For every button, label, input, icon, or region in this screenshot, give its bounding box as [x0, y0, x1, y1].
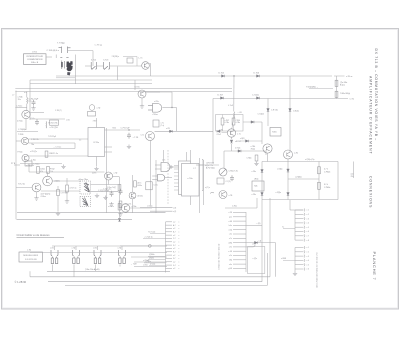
- svg-text:x.(7)ΩΩx: x.(7)ΩΩx: [295, 176, 302, 178]
- svg-text:© 1.2B 90: © 1.2B 90: [15, 280, 27, 284]
- pin mark conn3 5: [303, 226, 306, 229]
- wire fuse1 up: [54, 246, 56, 250]
- wire conn2 pin 13: [233, 263, 246, 265]
- resistor R705: [37, 167, 40, 174]
- ground between boxes: [95, 194, 99, 198]
- svg-text:C8 x2: C8 x2: [217, 134, 221, 136]
- wire T701 collector jog: [149, 63, 150, 65]
- switch S703 contacts: [104, 62, 110, 70]
- wire y148 link: [35, 148, 75, 150]
- diode D709: [267, 109, 270, 112]
- svg-text:x x: x x: [24, 92, 26, 94]
- wire conn1 in y238: [143, 238, 166, 240]
- wire x117 drop: [117, 67, 119, 81]
- wire y66 seg a: [85, 65, 91, 67]
- fuse switch F2: [73, 250, 80, 264]
- svg-text:D.7Ωx: D.7Ωx: [17, 121, 23, 123]
- inductor L703: [233, 112, 236, 119]
- fuse switch F1: [51, 250, 58, 264]
- transistor T710: [129, 192, 136, 199]
- svg-text:x (7)x: x (7)x: [253, 258, 258, 260]
- wire T705 out: [29, 138, 88, 140]
- svg-text:x⁷Ω±: x⁷Ω±: [252, 243, 256, 245]
- wire y77.8 seg: [56, 77, 75, 79]
- svg-text:x.(7) x: x.(7) x: [205, 187, 210, 189]
- svg-text:x 5: x 5: [307, 227, 309, 229]
- svg-text:x 6: x 6: [307, 231, 309, 233]
- wire G702 out: [172, 166, 178, 168]
- wire T715 to column: [113, 176, 120, 178]
- svg-text:x.7Ωx: x.7Ωx: [252, 171, 257, 173]
- svg-text:(7)Ωxx: (7)Ωxx: [149, 258, 154, 260]
- wire bus y88.5: [15, 88, 232, 90]
- svg-text:xΩxxx 7Ωxx: xΩxxx 7Ωxx: [79, 179, 89, 181]
- svg-text:C.Rx: C.Rx: [154, 185, 158, 187]
- svg-text:x.7Ω: x.7Ω: [72, 248, 76, 250]
- svg-text:Circuit fusible vu de dessous: Circuit fusible vu de dessous: [17, 233, 51, 237]
- svg-text:x.7: x.7: [12, 95, 14, 97]
- wire x163.5 vertical: [163, 150, 165, 162]
- ground C702: [31, 106, 35, 110]
- wire gate out: [165, 177, 172, 179]
- transistor T711: [121, 204, 129, 212]
- capacitor C703: [35, 119, 39, 125]
- svg-text:7.8.7 xΩx: 7.8.7 xΩx: [148, 232, 155, 234]
- svg-text:COMMUTATION: COMMUTATION: [27, 58, 43, 61]
- wire y257 seg: [131, 256, 167, 258]
- wire enclosure out y122: [243, 121, 262, 123]
- svg-text:+ 7.7Ω: + 7.7Ω: [133, 137, 139, 139]
- wire x266 drop: [265, 151, 267, 155]
- wire main bus y76: [56, 75, 332, 77]
- transistor T707: [32, 183, 41, 192]
- svg-text:D.706: D.706: [254, 73, 260, 75]
- wire conn3 lower pin 6: [295, 268, 304, 270]
- svg-text:0.7Ωx: 0.7Ωx: [236, 122, 241, 124]
- wire drop x93: [92, 51, 94, 66]
- component box right mid: [252, 181, 264, 191]
- wire G702 in2: [155, 168, 161, 170]
- wire conn1 pin 14: [166, 264, 173, 266]
- transistor T712 small circle: [219, 191, 227, 199]
- wire T707 emitter: [36, 192, 38, 196]
- wire T703 diode down: [231, 144, 233, 151]
- wire conn1 pin 12: [166, 257, 173, 259]
- svg-text:7.W.(ΩΩ8)x →: 7.W.(ΩΩ8)x →: [306, 86, 318, 88]
- svg-text:4.7k 7.5x: 4.7k 7.5x: [70, 188, 77, 190]
- svg-text:x.7(Ω) x(7)x: x.7(Ω) x(7)x: [305, 159, 315, 161]
- wire T702 to x172: [146, 91, 172, 93]
- component box center: [153, 120, 159, 127]
- svg-text:x.7(Ω)x: x.7(Ω)x: [276, 192, 282, 194]
- wire IC2 left pin 7: [174, 186, 179, 188]
- component box L70: [25, 161, 32, 166]
- logic gate G701: [158, 175, 165, 181]
- svg-text:D.7Ωx: D.7Ωx: [235, 148, 240, 150]
- svg-text:x 7: x 7: [307, 236, 309, 238]
- svg-text:c.6x: c.6x: [229, 234, 232, 236]
- wire y266 seg: [134, 266, 167, 268]
- resistor R716: [66, 185, 69, 192]
- wire x290 long drop: [289, 76, 291, 152]
- wire x353 stub: [352, 162, 354, 179]
- wire x275 drop: [275, 243, 277, 277]
- svg-text:C.7Ωx 0.x: C.7Ωx 0.x: [103, 189, 111, 191]
- wire fuse drop f1: [52, 265, 54, 272]
- wire bus y213: [17, 212, 166, 214]
- svg-text:E-7: E-7: [173, 251, 176, 253]
- wire conn3 pin 4: [295, 222, 304, 224]
- wire y131.3: [155, 130, 214, 132]
- ground center: [118, 212, 122, 216]
- wire x150.5 down to bus: [150, 64, 152, 77]
- svg-text:J.7x: J.7x: [162, 160, 165, 162]
- svg-text:7.8Ωx 8Ω(x): 7.8Ωx 8Ω(x): [340, 93, 351, 95]
- wire fuses bottom y271: [47, 270, 170, 272]
- wire conn3 pin 2: [295, 213, 304, 215]
- svg-text:x-2: x-2: [173, 228, 175, 230]
- svg-text:x.(2): x.(2): [173, 211, 177, 213]
- wire T710 down: [132, 199, 134, 213]
- svg-text:x.7ΩΩΩ xΩx 7Ω xΩΩx 7.ΩΩx: x.7ΩΩΩ xΩx 7Ω xΩΩx 7.ΩΩx xΩ: [219, 243, 221, 270]
- svg-text:x.7Ω: x.7Ω: [118, 248, 122, 250]
- transistor T714: [284, 150, 293, 159]
- component box under trimmer: [217, 178, 224, 184]
- transistor T708: [43, 176, 53, 186]
- svg-text:R.7Ω 170k: R.7Ω 170k: [49, 123, 58, 125]
- svg-text:x.7(Ω)x: x.7(Ω)x: [277, 168, 283, 170]
- diode DL1: [261, 170, 264, 173]
- ground T702: [140, 104, 144, 108]
- wire IC right pin y147: [105, 146, 113, 148]
- svg-text:x.7Ω: x.7Ω: [114, 173, 118, 175]
- svg-text:C.7(2k): C.7(2k): [252, 95, 259, 97]
- svg-text:7.7 Mpp: 7.7 Mpp: [57, 43, 66, 45]
- wire conn1 pin 4: [166, 231, 173, 233]
- wire conn1 pin 10: [166, 251, 173, 253]
- svg-text:x-2: x-2: [173, 268, 175, 270]
- wire IC2 left pin 1: [174, 165, 179, 167]
- svg-text:C.R 56x: C.R 56x: [271, 110, 278, 112]
- wire conn2 pin 5: [233, 229, 246, 231]
- svg-text:C.7M pp: C.7M pp: [95, 45, 103, 47]
- hook right of IC2: [210, 192, 214, 193]
- svg-text:+ C.7(2) 7μ: + C.7(2) 7μ: [144, 236, 153, 238]
- svg-text:IC70x: IC70x: [93, 142, 100, 144]
- wire conn2 pin 10: [233, 250, 246, 252]
- svg-text:x 5: x 5: [307, 264, 309, 266]
- wire long bottom 2: [48, 281, 262, 283]
- svg-text:x-2: x-2: [173, 235, 175, 237]
- svg-text:x.7Ω: x.7Ω: [166, 128, 170, 130]
- switch S701 contacts: [59, 47, 71, 58]
- wire conn3 pin 1: [295, 209, 304, 211]
- wire ladder top y161.5: [262, 161, 338, 163]
- wire conn1 pin 2: [166, 224, 173, 226]
- svg-text:→ 0V: → 0V: [237, 112, 242, 114]
- svg-text:x.7Ω (7)x: x.7Ω (7)x: [30, 151, 37, 153]
- svg-text:x 3: x 3: [307, 218, 309, 220]
- wire T704 down: [25, 119, 27, 130]
- svg-text:x.7Ω(2) 2x: x.7Ω(2) 2x: [26, 165, 34, 167]
- wire fuse drop f2: [73, 265, 75, 277]
- wire x268 drop: [267, 99, 269, 127]
- wire IC2 top pin a: [186, 152, 188, 161]
- wire conn3 left stub: [283, 228, 295, 230]
- wire T705 out2: [29, 142, 75, 144]
- svg-text:L.7Ωxx: L.7Ωxx: [34, 164, 40, 166]
- diode D706 on bus: [257, 75, 260, 78]
- pin mark conn3 3: [303, 217, 306, 220]
- svg-text:MODULE-XΩXX: MODULE-XΩXX: [23, 255, 38, 257]
- wire T702 down: [141, 98, 143, 104]
- heading circuit underline: [17, 233, 65, 238]
- wire fuse4 up: [121, 246, 123, 250]
- wire y262 seg: [134, 261, 167, 263]
- wire bus y83.5: [30, 83, 152, 85]
- svg-text:Γ.x: Γ.x: [282, 226, 284, 228]
- svg-text:P.7Ωx: P.7Ωx: [18, 152, 23, 154]
- svg-text:5.7x2: 5.7x2: [91, 60, 97, 62]
- svg-text:x.7Ω: x.7Ω: [97, 108, 101, 110]
- wire x27 top: [26, 92, 28, 98]
- svg-text:AMPLIFICATEUR D’EFFACEMENT: AMPLIFICATEUR D’EFFACEMENT: [368, 76, 372, 155]
- wire y107.5 left: [15, 107, 26, 109]
- svg-text:C.7(2): C.7(2): [226, 181, 231, 183]
- ground R712: [254, 162, 258, 166]
- svg-text:→ C.7xxx: → C.7xxx: [53, 146, 61, 148]
- wire conn3 lower pin 5: [295, 264, 304, 266]
- wire T706 out: [29, 155, 88, 157]
- pin mark conn3 lower 6: [303, 268, 306, 271]
- transistor T704: [22, 110, 30, 118]
- wire y252 long: [30, 252, 167, 254]
- wire ladder bottom y199.5: [262, 199, 338, 201]
- wire bus y219: [17, 218, 133, 220]
- svg-text:A.7(5): A.7(5): [138, 195, 144, 198]
- svg-text:x.7(Ω)x: x.7(Ω)x: [147, 205, 153, 207]
- wire x336.5 drop: [336, 76, 338, 99]
- wire fuse top bus y246: [52, 245, 167, 247]
- module outline box bottom: [248, 247, 265, 274]
- diode down x119: [118, 219, 121, 222]
- wire conn2 spine: [245, 212, 247, 272]
- svg-text:xΩΩ x.7ΩΩΩ xΩΩ 7ΩΩΩ xΩ 7.: xΩΩ x.7ΩΩΩ xΩΩ 7ΩΩΩ xΩ 7.Ωx xΩΩ x.7Ω: [317, 252, 319, 288]
- svg-text:x.7Ωx: x.7Ωx: [143, 264, 148, 266]
- ground T707: [34, 196, 38, 200]
- transistor T716: [146, 132, 155, 141]
- wire left rail x16: [15, 91, 17, 220]
- svg-text:x.(7): x.(7): [173, 207, 177, 209]
- diode D708 on bus98: [257, 97, 260, 100]
- wire y211 left: [150, 210, 173, 212]
- diode D711 left: [217, 130, 220, 133]
- wire y184.5 boxes right: [91, 184, 119, 186]
- ground IC1: [94, 167, 98, 171]
- svg-text:b.4x: b.4x: [229, 225, 232, 227]
- svg-text:L.7Ω: L.7Ω: [27, 250, 32, 252]
- svg-text:T.7ΩΩ: T.7ΩΩ: [18, 134, 24, 136]
- svg-text:x.7Ω: x.7Ω: [50, 248, 54, 250]
- wire y131 left: [17, 131, 38, 133]
- wire x137 drop: [136, 57, 138, 67]
- resistor RL2: [318, 182, 321, 189]
- svg-text:x.2ΩΩ: x.2ΩΩ: [281, 258, 287, 260]
- enclosure box 0.47u: [216, 115, 243, 132]
- wire conn1 pin 5: [166, 234, 173, 236]
- wire bus y98: [213, 98, 348, 100]
- wire T705 base: [16, 140, 21, 142]
- wire conn3 pin 7: [295, 235, 304, 237]
- wire conn2 pin 14: [233, 267, 246, 269]
- resistor R718: [118, 204, 121, 211]
- transistor T701: [142, 62, 150, 70]
- wire x270 drop long: [269, 198, 271, 277]
- wire IC right bus: [106, 128, 108, 213]
- wire conn2 pin ext y247: [246, 246, 254, 248]
- wire conn1 in y265: [149, 265, 166, 267]
- resistor R703: [45, 122, 48, 129]
- wire conn1 pin 1: [166, 221, 173, 223]
- wire x267 drop: [266, 253, 268, 285]
- connector contact blob (dark): [61, 61, 73, 75]
- wire cap1 lead: [222, 115, 224, 119]
- wire gate in: [152, 175, 157, 177]
- wire conn3 top link: [290, 209, 303, 211]
- wire conn1 pin 3: [166, 227, 173, 229]
- resistor R721: [335, 80, 338, 86]
- svg-text:x 1: x 1: [307, 210, 309, 212]
- svg-text:x.7x: x.7x: [229, 238, 232, 240]
- svg-text:0.7Ωx: 0.7Ωx: [225, 122, 230, 124]
- wire R715 down: [57, 196, 59, 212]
- pin mark conn3 lower 1: [303, 246, 306, 249]
- svg-text:x-2: x-2: [173, 248, 175, 250]
- wire IC bottom pin: [96, 157, 98, 167]
- wire conn3 pin 5: [295, 226, 304, 228]
- svg-text:C.703 (A) 4-x: C.703 (A) 4-x: [47, 49, 60, 52]
- svg-text:D-7: D-7: [173, 245, 176, 247]
- wire x29 riser: [28, 164, 30, 173]
- wire conn1 in y233: [150, 233, 166, 235]
- svg-text:C.70xx: C.70xx: [16, 105, 22, 107]
- wire y191.5 boxes right: [91, 191, 119, 193]
- wire conn2 pin 4: [233, 224, 246, 226]
- ground C707: [127, 145, 131, 149]
- wire conn2 pin 12: [233, 259, 246, 261]
- svg-text:A.P(7.5)Ωx: A.P(7.5)Ωx: [206, 166, 215, 169]
- svg-text:8.7x5: 8.7x5: [135, 87, 141, 89]
- wire left drop x30: [29, 80, 31, 120]
- wire IC2 left pin 6: [174, 182, 179, 184]
- pin mark conn3 6: [303, 230, 306, 233]
- svg-text:x-2: x-2: [173, 261, 175, 263]
- wire ladder left rail: [261, 162, 263, 200]
- svg-text:x.7Ω: x.7Ω: [229, 195, 233, 197]
- svg-text:D.705: D.705: [219, 73, 225, 75]
- svg-text:70x: 70x: [18, 99, 21, 101]
- wire conn3 lower pin 2: [295, 251, 304, 253]
- resistor R722: [335, 91, 338, 97]
- transistor T702: [138, 90, 146, 98]
- capacitor C711: [110, 191, 114, 197]
- wire conn2 pin 1: [233, 212, 246, 214]
- svg-text:x.R(2): x.R(2): [240, 138, 245, 140]
- logic gate G703: [148, 104, 162, 113]
- capacitor C707: [127, 133, 131, 139]
- svg-text:B.Ωxx: B.Ωxx: [340, 84, 345, 86]
- svg-text:xRΩx: xRΩx: [254, 179, 259, 181]
- wire x262 drop2: [261, 122, 263, 144]
- svg-text:C.7Ωx: C.7Ωx: [31, 159, 36, 161]
- wire conn2 pin 11: [233, 255, 246, 257]
- svg-text:x.7Ω: x.7Ω: [294, 153, 299, 155]
- pin mark conn3 7: [303, 234, 306, 237]
- wire conn3 pin 3: [295, 218, 304, 220]
- transistor T713: [263, 144, 272, 153]
- wire x224 drop: [223, 151, 225, 168]
- svg-text:x.7Ω: x.7Ω: [93, 248, 97, 250]
- wire arrow T6: [309, 87, 333, 89]
- fuse switch F3: [94, 250, 101, 264]
- wire x199 vert: [199, 158, 201, 213]
- svg-text:x 4: x 4: [307, 223, 309, 225]
- svg-text:x.x: x.x: [79, 140, 81, 142]
- svg-text:x 1: x 1: [307, 247, 309, 249]
- wire conn3 lower pin 1: [295, 247, 304, 249]
- svg-text:x.7Ωx: x.7Ωx: [187, 178, 192, 180]
- wire R716 up: [66, 178, 68, 185]
- wire conn1 in y246: [120, 245, 166, 247]
- svg-text:x-2: x-2: [173, 255, 175, 257]
- svg-text:+ (7)Ω x: + (7)Ω x: [145, 261, 151, 263]
- ground R715: [56, 212, 60, 216]
- wire conn2 pin ext y226: [246, 224, 262, 226]
- logic gate G702: [161, 163, 172, 172]
- svg-text:x 2: x 2: [307, 252, 309, 254]
- svg-text:x.7Ω (7)Ω: x.7Ω (7)Ω: [50, 127, 59, 129]
- svg-text:C7(2)x: C7(2)x: [293, 111, 299, 113]
- shielded coil box 2: [80, 197, 91, 207]
- ground C711: [109, 202, 113, 206]
- component cap box mid: [127, 58, 133, 63]
- wire x119.5 vert: [119, 177, 121, 218]
- wire y208 left: [140, 207, 173, 209]
- wire bus right ext: [334, 75, 345, 77]
- wire resistor col x319: [318, 162, 320, 200]
- wire conn2 top link: [225, 207, 257, 209]
- svg-text:C.7Ω 2.2k: C.7Ω 2.2k: [31, 139, 39, 141]
- switch S701 lower posts: [62, 61, 65, 70]
- wire IC2 left pin 5: [174, 179, 179, 181]
- component box 70k6: [270, 128, 281, 137]
- svg-text:1.7MΩx: 1.7MΩx: [324, 187, 330, 189]
- wire x156 long vertical: [155, 160, 157, 213]
- component box R711: [146, 182, 152, 190]
- wire IC2 top pin b: [190, 150, 192, 161]
- wire T707 base: [16, 187, 32, 189]
- transistor T715: [105, 172, 113, 180]
- wire ladder right rail: [337, 162, 339, 200]
- wire cap1 lead b: [222, 125, 224, 131]
- wire y119 right: [31, 118, 66, 120]
- wire fuse drop f3: [95, 265, 97, 272]
- hook ext y247: [254, 245, 256, 247]
- svg-text:B.Mx: B.Mx: [138, 185, 142, 187]
- wire conn2 pin 3: [233, 220, 246, 222]
- junction bus x234: [233, 75, 234, 76]
- wire y66 seg c: [110, 65, 142, 67]
